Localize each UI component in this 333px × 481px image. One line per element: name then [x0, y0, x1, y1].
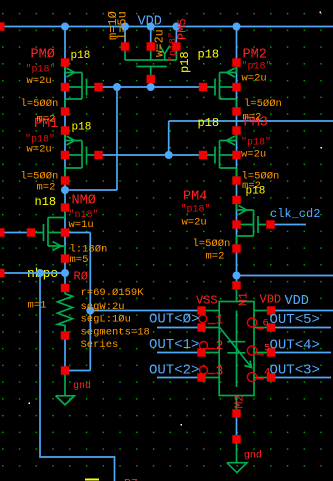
pin block out2 — [197, 348, 205, 356]
transistor PM0 — [65, 67, 95, 108]
junction VDD-left — [61, 23, 69, 31]
svg-text:p18: p18 — [198, 116, 220, 130]
pin PM4 bulk — [232, 220, 240, 228]
GREEN SYMBOL GRAPHICS — [35, 46, 267, 473]
pin PM3 source — [232, 176, 240, 184]
white grid glints — [29, 12, 323, 426]
pin 1 tick — [208, 323, 216, 325]
svg-text:segL:1Øu: segL:1Øu — [81, 314, 131, 326]
junction gate net PM5 — [147, 83, 155, 91]
bubble pin 3 — [200, 366, 208, 374]
wire NM0 bulk branch — [69, 232, 90, 234]
svg-text:w=2u: w=2u — [242, 73, 267, 85]
svg-text:5: 5 — [264, 343, 270, 355]
pin 5 tick — [257, 353, 265, 355]
bubble pin 4 — [247, 372, 256, 381]
resistor R0 — [58, 292, 73, 332]
wire PM5 source stub — [124, 27, 126, 43]
pin PM5 gate — [147, 75, 155, 83]
pin PM5 source — [121, 42, 129, 50]
svg-text:p18: p18 — [71, 50, 91, 62]
pin block out5 — [267, 348, 275, 356]
pin PM2 source — [232, 107, 240, 115]
junction PM1 source node — [61, 186, 69, 194]
wire left column net — [64, 27, 66, 285]
BLOCK PIN DECORATIONS — [199, 315, 264, 382]
wire VDD rail — [0, 26, 333, 28]
bubble pin 6 — [247, 318, 256, 327]
junction VDD-PM5 d — [172, 23, 180, 31]
partial label bottom yellow — [85, 479, 99, 481]
block pin lead 8 — [254, 377, 267, 379]
pin PM1 drain — [61, 126, 69, 134]
svg-text:Series: Series — [81, 339, 119, 351]
svg-text:l=5ØØn: l=5ØØn — [244, 98, 282, 110]
block pin lead M2 — [236, 396, 238, 410]
pin block M2 bottom — [232, 409, 240, 417]
svg-text:m=2: m=2 — [243, 112, 262, 124]
svg-text:VDD: VDD — [260, 293, 282, 307]
pin edge VDD rail — [0, 22, 5, 30]
pin block M1 top — [232, 281, 240, 289]
svg-text:3: 3 — [216, 364, 224, 379]
pin PM5 mid — [147, 42, 155, 50]
svg-text:m=1: m=1 — [28, 300, 47, 312]
junction VDD-PM5 s — [121, 23, 129, 31]
svg-text:VSS: VSS — [196, 294, 218, 308]
svg-text:OUT<Ø>: OUT<Ø> — [149, 312, 199, 328]
svg-text:PM2: PM2 — [243, 48, 267, 63]
wire OUT<2> — [157, 377, 198, 379]
transistor PM3 — [207, 135, 237, 177]
block pin lead 2 — [206, 327, 220, 329]
svg-text:clk_cd2: clk_cd2 — [270, 207, 320, 221]
wire VDD block stub — [275, 310, 333, 312]
svg-text:l=5ØØn: l=5ØØn — [21, 98, 59, 110]
wire R0 to gnd — [64, 340, 66, 367]
svg-text:RØ: RØ — [74, 270, 88, 284]
wire OUT<5> — [275, 327, 331, 329]
pin gnd left — [61, 366, 69, 374]
svg-text:"p18": "p18" — [242, 61, 272, 73]
svg-text:p18: p18 — [198, 48, 220, 62]
wire OUT<3> — [275, 377, 331, 379]
pin gnd right — [232, 435, 240, 443]
wire OUT<1> — [157, 352, 198, 354]
svg-text:w=2u: w=2u — [182, 217, 207, 229]
pin R0 top — [61, 284, 69, 292]
svg-text:segments=18: segments=18 — [81, 327, 150, 339]
svg-text:segW:2u: segW:2u — [81, 301, 125, 313]
pin block out1 — [197, 323, 205, 331]
svg-text:VDD: VDD — [138, 15, 162, 30]
pin PM1 source — [61, 176, 69, 184]
svg-text:"p18": "p18" — [26, 64, 56, 76]
pin R0 bottom — [61, 331, 69, 339]
bubble pin 2 — [200, 342, 208, 350]
wire PM5 mid stub — [150, 27, 152, 43]
junction nbpo left — [36, 269, 44, 277]
transistor PM4 — [237, 204, 267, 245]
junction VDD-right — [233, 23, 241, 31]
wire PM5 drain stub — [175, 27, 177, 43]
svg-text:m=2: m=2 — [206, 251, 225, 263]
wire OUT<4> — [275, 352, 331, 354]
pin PM5 drain — [172, 42, 180, 50]
pin PM0 bulk — [61, 83, 69, 91]
pin NM0 bulk — [61, 228, 69, 236]
wire gnd link to R0 bottom — [69, 370, 90, 372]
wire NM0 gate stub to edge — [0, 232, 27, 234]
wire PM0-PM2 gate net — [103, 86, 200, 88]
pin block out3 — [197, 373, 205, 381]
svg-text:4: 4 — [264, 367, 270, 379]
svg-text:1: 1 — [216, 313, 224, 328]
svg-text:gnd: gnd — [73, 380, 91, 392]
pin PM4 source — [232, 244, 240, 252]
svg-text:"p18": "p18" — [181, 204, 211, 216]
svg-text:PM4: PM4 — [183, 190, 207, 205]
pin block VSS — [197, 306, 205, 314]
junction VSS net — [86, 307, 94, 315]
transistor NM0 — [35, 212, 65, 255]
transistor PM2 — [207, 67, 237, 108]
pin block VDD — [267, 306, 275, 314]
wire VSS net — [90, 310, 197, 312]
pin PM0 source — [61, 107, 69, 115]
svg-text:OUT<2>: OUT<2> — [149, 363, 199, 379]
svg-text:r=69.Ø159K: r=69.Ø159K — [81, 287, 145, 299]
pin NM0 source — [61, 254, 69, 262]
pin PM2 gate — [199, 83, 207, 91]
svg-text:OUT<1>: OUT<1> — [149, 337, 199, 353]
svg-text:w=1u: w=1u — [69, 219, 94, 231]
svg-text:6: 6 — [263, 318, 269, 330]
pin PM2 bulk — [232, 83, 240, 91]
wire gate2 riser — [168, 121, 170, 155]
svg-text:m=5: m=5 — [70, 254, 89, 266]
svg-text:w=2u: w=2u — [154, 29, 167, 57]
pin PM4 gate — [266, 220, 274, 228]
pin PM1 gate — [94, 151, 102, 159]
wire PM1-PM3 gate net — [103, 154, 200, 156]
svg-text:p18: p18 — [246, 186, 266, 198]
pin block out6 — [267, 323, 275, 331]
pin edge nbpo net — [0, 269, 5, 277]
svg-text:OUT<4>: OUT<4> — [270, 338, 320, 354]
ground gnd (left) — [56, 375, 75, 405]
pin 2 tick — [208, 348, 216, 350]
wire gate net riser — [116, 87, 118, 190]
block pin lead 4 — [206, 377, 220, 379]
svg-text:l=5ØØn: l=5ØØn — [193, 238, 231, 250]
block pin lead 7 — [254, 352, 267, 354]
pin PM0 drain — [61, 58, 69, 66]
svg-text:m=2: m=2 — [37, 182, 56, 194]
pin PM3 bulk — [232, 151, 240, 159]
block M1/M2 switch box — [206, 290, 268, 410]
RED PIN SQUARES — [0, 22, 275, 443]
bubble pin 1 — [199, 315, 207, 323]
pin block out4 — [267, 373, 275, 381]
bubble pin 5 — [247, 346, 256, 355]
wire PM5 gate stub — [150, 83, 152, 87]
pin NM0 drain — [61, 203, 69, 211]
svg-text:M2: M2 — [234, 395, 247, 409]
wire PM4 source to right edge — [237, 275, 333, 277]
svg-text:"p18": "p18" — [241, 137, 271, 149]
pin NM0 gate — [27, 228, 35, 236]
pin PM2 drain — [232, 58, 240, 66]
svg-text:2: 2 — [216, 338, 224, 353]
wire OUT<0> — [157, 327, 198, 329]
svg-text:OUT<3>: OUT<3> — [270, 363, 320, 379]
svg-text:w=2u: w=2u — [241, 149, 266, 161]
svg-text:PM5: PM5 — [176, 18, 190, 40]
wire nbpo net — [0, 272, 65, 274]
junction nbpo main — [61, 269, 69, 277]
pin edge NM0 gate net — [0, 228, 5, 236]
wire cascode node to right edge — [169, 120, 333, 122]
transistor PM5 (top mos cap) — [125, 46, 176, 76]
junction PM4 source node — [233, 272, 241, 280]
block pin lead 6 — [254, 327, 267, 329]
pin PM3 drain — [232, 126, 240, 134]
pin 4 tick — [257, 378, 265, 380]
pin 6 tick — [257, 328, 265, 330]
block pin lead 1 — [206, 310, 220, 312]
svg-text:w=2u: w=2u — [27, 144, 52, 156]
wire block M2 to gnd — [236, 418, 238, 436]
pin PM0 gate — [94, 83, 102, 91]
svg-text:VDD: VDD — [285, 294, 309, 309]
ground gnd (right bottom) — [227, 444, 247, 473]
wire right column net — [236, 27, 238, 282]
transistor PM1 — [65, 135, 95, 177]
wire clk_cd2 stub — [275, 224, 307, 226]
junction gate net riser — [113, 83, 121, 91]
pin PM1 bulk — [61, 151, 69, 159]
svg-text:w=2u: w=2u — [27, 75, 52, 87]
block pin lead M1 — [236, 290, 238, 302]
svg-text:OUT<5>: OUT<5> — [270, 312, 320, 328]
svg-text:gnd: gnd — [244, 450, 262, 462]
block pin lead 3 — [206, 352, 220, 354]
pin 3 tick — [208, 373, 216, 375]
svg-text:p18: p18 — [178, 51, 192, 73]
svg-text:n18: n18 — [35, 195, 57, 209]
svg-text:M1: M1 — [238, 292, 251, 306]
svg-text:PMØ: PMØ — [31, 48, 55, 63]
junction VDD-PM5 m — [147, 23, 155, 31]
svg-text:m=2: m=2 — [37, 114, 56, 126]
svg-text:l=5u: l=5u — [116, 11, 130, 40]
junction gate2 net — [165, 151, 173, 159]
pin PM3 gate — [199, 151, 207, 159]
wire bulk riser — [89, 233, 91, 371]
pin PM4 drain — [232, 196, 240, 204]
wire nbpo down leg — [40, 273, 115, 481]
block pin lead 5 — [254, 310, 267, 312]
wire gate net to PM1 source node — [65, 189, 117, 191]
svg-text:NMØ: NMØ — [72, 194, 96, 209]
svg-text:p18: p18 — [72, 122, 92, 134]
